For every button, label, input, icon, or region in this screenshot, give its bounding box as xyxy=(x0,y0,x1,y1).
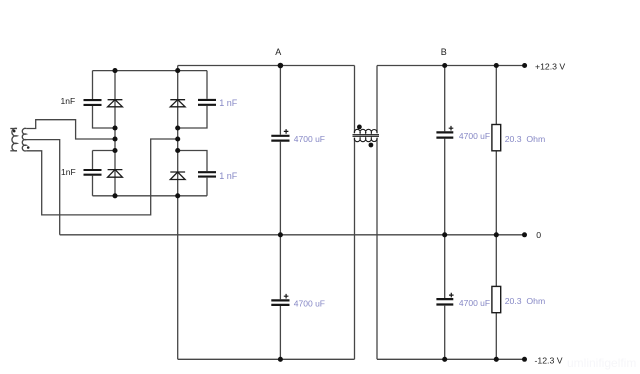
svg-text:4700 uF: 4700 uF xyxy=(459,131,490,141)
wire choke right lower xyxy=(376,138,378,359)
wire bottom rail section B xyxy=(377,358,525,360)
wire bottom rail section A xyxy=(178,358,355,360)
wire C3 top stub xyxy=(206,71,208,99)
wire secondary bottom to bridge right mid xyxy=(26,139,178,215)
junction bridge bottom left xyxy=(112,193,117,198)
capacitor C7 plus sign xyxy=(449,126,454,131)
wire secondary center tap down xyxy=(26,140,60,235)
junction bridge top left xyxy=(112,68,117,73)
svg-text:1 nF: 1 nF xyxy=(219,98,238,108)
wire transformer primary top lead xyxy=(10,128,17,130)
wire choke left lower xyxy=(354,138,356,359)
diode D2 xyxy=(108,170,123,178)
svg-text:4700 uF: 4700 uF xyxy=(294,298,325,308)
svg-text:+12.3 V: +12.3 V xyxy=(535,61,565,71)
junction cap B minus xyxy=(442,357,447,362)
junction resistor minus xyxy=(494,357,499,362)
junction left mid center xyxy=(112,136,117,141)
svg-text:1nF: 1nF xyxy=(61,167,76,177)
wire secondary top to bridge left mid xyxy=(26,120,115,139)
terminal +12.3V xyxy=(522,63,527,68)
wire capacitor chain B upper xyxy=(444,66,446,132)
wire C3 bottom stub xyxy=(178,106,207,128)
capacitor C5 4700uF xyxy=(271,136,289,141)
transformer T1 primary phase dot xyxy=(13,130,16,133)
capacitor C2 1nF xyxy=(84,170,102,175)
svg-text:1nF: 1nF xyxy=(61,96,76,106)
wire capacitor chain A lower xyxy=(279,306,281,359)
node B junction xyxy=(442,63,447,68)
wire top rail section B xyxy=(377,65,525,67)
terminal 0 xyxy=(522,232,527,237)
choke L1 lower phase dot xyxy=(369,143,374,148)
capacitor C6 plus sign xyxy=(284,294,289,299)
wire C2 bottom stub xyxy=(92,176,94,196)
wire C1 top stub xyxy=(92,71,94,100)
wire C4 bottom stub xyxy=(206,178,208,196)
node A junction xyxy=(278,63,284,69)
svg-text:4700 uF: 4700 uF xyxy=(294,134,325,144)
junction right mid center xyxy=(175,136,180,141)
wire capacitor chain A middle xyxy=(279,142,281,300)
wire C1 bottom stub xyxy=(93,106,116,128)
junction cap A zero xyxy=(278,232,283,237)
capacitor C5 plus sign xyxy=(284,129,289,134)
wire left bridge branch xyxy=(114,71,116,196)
wire bridge top rail xyxy=(93,70,208,72)
wire right bridge branch xyxy=(177,71,179,196)
junction left mid lower xyxy=(112,148,117,153)
wire 0 rail xyxy=(60,234,525,236)
resistor R2 20.3 Ohm xyxy=(492,286,501,312)
wire resistor chain middle xyxy=(495,151,497,287)
capacitor C8 plus sign xyxy=(449,293,454,298)
junction resistor zero xyxy=(494,232,499,237)
wire choke left upper xyxy=(354,66,356,134)
transformer T1 secondary phase dot xyxy=(27,146,30,149)
svg-text:20.3 Ohm: 20.3 Ohm xyxy=(505,296,546,306)
svg-text:B: B xyxy=(441,47,447,57)
wire C2 top stub xyxy=(93,151,116,170)
capacitor C3 1nF xyxy=(198,100,216,105)
wire bridge bottom rail xyxy=(93,195,208,197)
wire bridge minus down xyxy=(177,196,179,359)
terminal -12.3V xyxy=(522,357,527,362)
svg-text:4700 uF: 4700 uF xyxy=(459,298,490,308)
resistor R1 20.3 Ohm xyxy=(492,125,501,151)
wire transformer primary bottom lead xyxy=(10,150,17,152)
junction right mid upper xyxy=(175,125,180,130)
junction right mid lower xyxy=(175,148,180,153)
capacitor C1 1nF xyxy=(84,100,102,105)
capacitor C6 4700uF xyxy=(271,300,289,305)
capacitor C7 4700uF xyxy=(436,132,453,137)
wire capacitor chain B lower xyxy=(444,306,446,360)
junction resistor top xyxy=(494,63,499,68)
wire top rail section A xyxy=(178,65,355,67)
junction bridge top right xyxy=(175,68,180,73)
transformer T1 secondary winding xyxy=(22,128,26,151)
svg-text:-12.3 V: -12.3 V xyxy=(535,355,563,365)
capacitor C8 4700uF xyxy=(436,299,453,304)
wire resistor chain upper xyxy=(495,66,497,125)
transformer T1 primary winding xyxy=(12,128,17,151)
wire resistor chain lower xyxy=(495,313,497,360)
wire jog bridge to top rail xyxy=(177,66,179,71)
wire capacitor chain B middle xyxy=(444,139,446,298)
diode D1 xyxy=(108,100,123,107)
svg-text:A: A xyxy=(275,47,281,57)
svg-text:umlinifigelfim: umlinifigelfim xyxy=(567,356,636,370)
choke L1 core xyxy=(353,135,380,137)
junction left mid upper xyxy=(112,125,117,130)
diode D3 xyxy=(170,100,185,107)
junction cap B zero xyxy=(442,232,447,237)
wire choke right upper xyxy=(376,66,378,134)
diode D4 xyxy=(170,172,185,180)
svg-text:20.3 Ohm: 20.3 Ohm xyxy=(505,134,546,144)
choke L1 upper winding xyxy=(354,129,377,133)
capacitor C4 1nF xyxy=(198,172,216,176)
junction bridge bottom right xyxy=(175,193,180,198)
svg-text:1 nF: 1 nF xyxy=(219,171,238,181)
junction cap A minus xyxy=(278,357,283,362)
wire C4 top stub xyxy=(178,151,207,172)
choke L1 upper phase dot xyxy=(357,125,362,130)
svg-text:0: 0 xyxy=(536,230,541,240)
choke L1 lower winding xyxy=(354,138,377,142)
wire capacitor chain A upper xyxy=(279,66,281,135)
